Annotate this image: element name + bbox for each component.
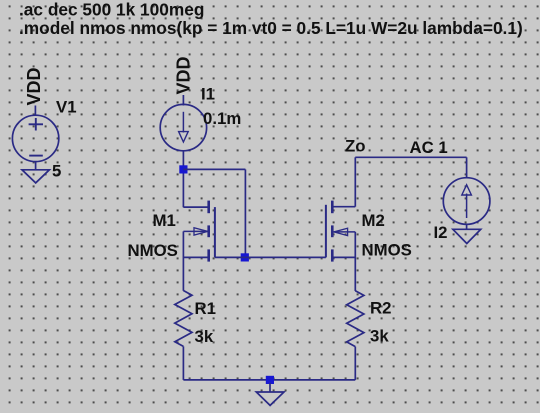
svg-text:NMOS: NMOS [362,241,412,260]
wire down to gate bus [244,169,246,257]
wire vdd flag to I1 [182,95,184,106]
junction node B (gate bus) [241,253,249,261]
wire V1 minus to ground [35,162,37,170]
svg-text:I2: I2 [434,223,448,242]
wire vdd flag to V1 plus [34,106,36,116]
svg-text:NMOS: NMOS [128,241,178,260]
wire M1 source/bulk down to R1 [182,231,184,290]
junction node A (drain of M1) [179,165,187,173]
svg-text:M1: M1 [153,211,176,230]
ground (I2) [453,229,481,243]
junction node C (bottom rail) [266,376,274,384]
svg-text:3k: 3k [370,327,389,346]
wire R2 to bottom rail [354,347,356,380]
svg-text:R2: R2 [370,299,391,318]
svg-text:M2: M2 [362,211,385,230]
svg-text:3k: 3k [195,327,214,346]
svg-text:.ac dec 500 1k 100meg: .ac dec 500 1k 100meg [19,0,204,20]
svg-text:Zo: Zo [345,137,366,156]
svg-text:R1: R1 [195,299,216,318]
wire M2 source/bulk down to R2 [354,232,356,291]
wire node A right [183,168,245,170]
transistor M1 (mirrored NMOS) [183,201,215,262]
wire I2 to ground [466,224,468,229]
resistor R1 [175,291,192,347]
current source I2 [443,178,490,225]
wire node C to ground [269,383,271,392]
transistor M2 (NMOS) [326,201,355,262]
svg-text:AC 1: AC 1 [410,138,448,157]
svg-text:VDD: VDD [24,67,44,105]
wire Zo net top [355,156,466,158]
svg-text:VDD: VDD [173,56,193,94]
svg-text:V1: V1 [56,98,77,117]
wire M2 drain up to Zo [354,157,356,206]
current source I1 [160,104,206,150]
svg-text:.model nmos nmos(kp = 1m vt0 =: .model nmos nmos(kp = 1m vt0 = 0.5 L=1u … [19,18,523,38]
svg-text:I1: I1 [201,85,215,104]
wire bottom rail [183,379,355,381]
wire Zo to I2 [466,157,468,178]
resistor R2 [347,291,364,347]
voltage source V1 [12,115,58,161]
wire I1 to M1 drain [182,151,184,208]
wire gate bus M1 to M2 [215,256,326,258]
ground (V1) [22,170,49,183]
vdd flag label (I1 branch) [173,56,193,94]
vdd flag label (V1 branch) [24,67,44,105]
wire R1 to bottom rail [182,346,184,380]
svg-text:0.1m: 0.1m [203,109,241,128]
svg-text:5: 5 [52,162,61,181]
ground (bottom) [256,392,284,405]
